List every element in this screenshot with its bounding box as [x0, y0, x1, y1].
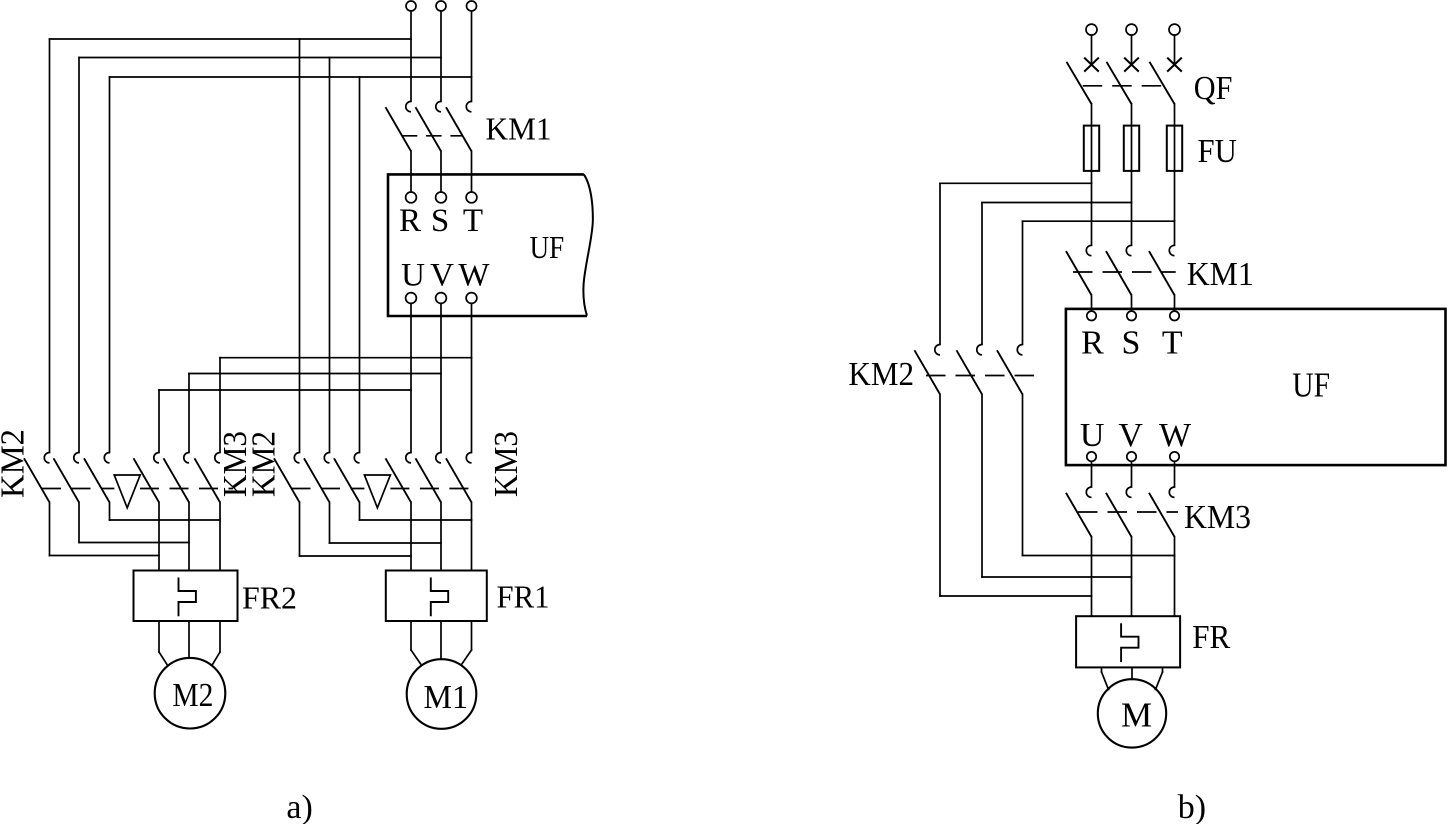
- wire: [471, 11, 473, 101]
- wire: [299, 39, 301, 453]
- wire: [471, 303, 473, 452]
- contactor KM2 pole 1 (a): [24, 453, 50, 503]
- svg-text:UF: UF: [1292, 367, 1330, 405]
- mechanical link QF: [1083, 85, 1163, 87]
- wire: [1131, 537, 1133, 616]
- mechanical link KM2/KM3 left (a): [42, 488, 114, 490]
- wire: [471, 151, 473, 192]
- wire: [78, 502, 80, 542]
- wire: [220, 357, 472, 359]
- svg-text:W: W: [458, 258, 490, 294]
- contactor KM3 pole 2 (b): [1106, 487, 1132, 537]
- wire: [1022, 394, 1024, 555]
- breaker QF pole 1 fixed contact: [1084, 58, 1099, 72]
- wire: [940, 595, 1092, 597]
- terminal L2 (a): [436, 1, 446, 11]
- wire: [1091, 461, 1093, 487]
- thermal relay FR1 heater element: [431, 578, 448, 617]
- contactor KM2 pole 5 (a): [304, 453, 330, 503]
- pin V output (a): [436, 293, 447, 304]
- svg-text:KM2: KM2: [848, 356, 914, 393]
- wire: [329, 502, 331, 543]
- wire: [188, 374, 190, 453]
- mechanical link KM2/KM3 left (a): [140, 488, 233, 490]
- wire: [213, 652, 221, 665]
- contactor KM3 pole 6 (a): [446, 453, 472, 503]
- mechanical link KM2/KM3 right (a): [292, 488, 365, 490]
- wire: [158, 502, 160, 570]
- contactor KM3 pole 1 (b): [1066, 487, 1092, 537]
- terminal L3 (b): [1169, 24, 1180, 35]
- contactor KM1 pole 3 (b): [1149, 245, 1175, 295]
- svg-text:R: R: [399, 203, 421, 239]
- contactor KM3 pole 3 (b): [1149, 487, 1175, 537]
- svg-text:M2: M2: [172, 677, 213, 714]
- pin U output (b): [1087, 452, 1096, 461]
- svg-text:KM2: KM2: [0, 429, 32, 498]
- pin S (a): [436, 192, 447, 203]
- wire: [440, 303, 442, 452]
- terminal L2 (b): [1126, 24, 1137, 35]
- contactor KM1 pole 1 (a): [386, 101, 412, 151]
- svg-text:FU: FU: [1198, 133, 1237, 170]
- svg-text:QF: QF: [1194, 70, 1233, 107]
- pin U output (a): [406, 293, 417, 304]
- wire: [1174, 35, 1176, 65]
- wire: [109, 77, 111, 453]
- svg-text:W: W: [1159, 417, 1192, 454]
- svg-text:FR1: FR1: [497, 579, 550, 615]
- wire: [440, 502, 442, 570]
- svg-text:S: S: [431, 203, 449, 239]
- mechanical link KM2 (b): [926, 375, 1034, 377]
- pin W output (b): [1170, 452, 1179, 461]
- motor M1: [407, 659, 477, 729]
- svg-text:a): a): [286, 789, 312, 824]
- svg-text:M: M: [1121, 696, 1152, 735]
- wire: [1023, 555, 1175, 557]
- wire: [110, 76, 472, 78]
- wire: [158, 390, 160, 453]
- wire: [219, 502, 221, 570]
- wire: [1091, 537, 1093, 616]
- frequency converter UF (a) torn edge: [583, 174, 592, 315]
- wire: [1131, 104, 1133, 245]
- contactor KM3 pole 2 (a): [164, 453, 190, 503]
- contactor KM2 pole 4 (a): [274, 453, 300, 503]
- breaker QF pole 1 blade: [1067, 62, 1092, 104]
- wire: [50, 38, 412, 40]
- svg-text:S: S: [1122, 325, 1141, 362]
- svg-text:V: V: [430, 258, 454, 294]
- wire: [440, 11, 442, 101]
- wire: [939, 183, 941, 344]
- svg-text:FR: FR: [1192, 619, 1230, 656]
- wire: [440, 621, 442, 659]
- wire: [981, 203, 983, 345]
- wire: [1131, 295, 1133, 311]
- frequency converter UF (b) box: [1066, 309, 1446, 465]
- contactor KM3 pole 5 (a): [416, 453, 442, 503]
- wire: [1091, 295, 1093, 311]
- breaker QF pole 3 fixed contact: [1167, 58, 1182, 72]
- wire: [1174, 295, 1176, 311]
- wire: [1022, 221, 1024, 344]
- wire: [159, 389, 411, 391]
- pin R (b): [1087, 311, 1096, 320]
- wire: [158, 621, 160, 652]
- svg-text:U: U: [401, 258, 425, 294]
- wire: [219, 621, 221, 652]
- wire: [410, 11, 412, 101]
- wire: [981, 394, 983, 577]
- fuse FU 1: [1084, 126, 1099, 171]
- wire: [1174, 537, 1176, 616]
- svg-text:U: U: [1080, 417, 1105, 454]
- thermal relay FR box: [1076, 616, 1180, 667]
- pin W output (a): [466, 293, 477, 304]
- svg-text:R: R: [1081, 325, 1104, 362]
- svg-text:b): b): [1178, 789, 1206, 824]
- thermal relay FR2 box: [134, 571, 238, 622]
- svg-text:KM3: KM3: [1184, 499, 1251, 536]
- wire: [330, 542, 442, 544]
- terminal L1 (a): [406, 1, 416, 11]
- contactor KM2 pole 2 (a): [54, 453, 80, 503]
- motor M2: [155, 658, 226, 729]
- wire: [1023, 220, 1175, 222]
- wire: [462, 650, 472, 664]
- wire: [982, 576, 1132, 578]
- wire: [411, 650, 421, 664]
- contactor KM2 pole 3 (b): [997, 345, 1023, 395]
- wire: [410, 151, 412, 192]
- wire: [471, 621, 473, 650]
- wire: [1174, 461, 1176, 487]
- thermal relay FR1 box: [386, 571, 487, 622]
- breaker QF pole 2 fixed contact: [1124, 58, 1139, 72]
- terminal L3 (a): [467, 1, 477, 11]
- svg-text:T: T: [463, 203, 483, 239]
- svg-text:KM1: KM1: [1187, 256, 1254, 293]
- wire: [78, 58, 80, 453]
- contactor KM3 pole 4 (a): [386, 453, 412, 503]
- svg-text:FR2: FR2: [242, 580, 297, 616]
- mechanical link KM1 (b): [1073, 271, 1176, 273]
- contactor KM2 pole 2 (b): [957, 345, 983, 395]
- contactor KM2 pole 3 (a): [84, 453, 110, 503]
- svg-text:KM2: KM2: [246, 431, 283, 497]
- wire: [1131, 667, 1133, 679]
- wire: [109, 502, 111, 520]
- wire: [1156, 672, 1163, 690]
- wire: [440, 151, 442, 192]
- pin T (a): [466, 192, 477, 203]
- wire: [329, 58, 331, 453]
- contactor KM3 pole 1 (a): [134, 453, 160, 503]
- breaker QF pole 2 blade: [1107, 62, 1132, 104]
- delta symbol left (a): [114, 475, 140, 508]
- contactor KM1 pole 2 (a): [416, 101, 442, 151]
- wire: [1102, 672, 1109, 690]
- frequency converter UF (a) box: [388, 174, 587, 316]
- contactor KM3 pole 3 (a): [195, 453, 221, 503]
- fuse FU 2: [1124, 126, 1139, 171]
- wire: [49, 39, 51, 453]
- pin R (a): [406, 192, 417, 203]
- wire: [79, 542, 189, 544]
- thermal relay FR2 heater element: [179, 578, 196, 617]
- wire: [1162, 667, 1164, 672]
- wire: [360, 519, 472, 521]
- wire: [410, 621, 412, 650]
- mechanical link KM2/KM3 right (a): [390, 488, 472, 490]
- contactor KM1 pole 2 (b): [1106, 245, 1132, 295]
- svg-text:KM1: KM1: [486, 111, 552, 147]
- fuse FU 3: [1167, 126, 1182, 171]
- mechanical link KM1 (a): [402, 135, 462, 137]
- svg-text:UF: UF: [530, 229, 565, 265]
- wire: [79, 57, 441, 59]
- wire: [982, 202, 1132, 204]
- contactor KM2 pole 1 (b): [915, 345, 941, 395]
- wire: [188, 502, 190, 570]
- contactor KM1 pole 1 (b): [1066, 245, 1092, 295]
- svg-text:T: T: [1162, 325, 1183, 362]
- wire: [940, 182, 1092, 184]
- pin V output (b): [1127, 452, 1136, 461]
- wire: [1091, 104, 1093, 245]
- wire: [299, 502, 301, 556]
- wire: [1091, 35, 1093, 65]
- wire: [410, 303, 412, 452]
- pin T (b): [1170, 311, 1179, 320]
- mechanical link KM3 (b): [1078, 511, 1178, 513]
- wire: [300, 555, 412, 557]
- terminal L1 (b): [1086, 24, 1097, 35]
- wire: [1131, 461, 1133, 487]
- wire: [359, 502, 361, 520]
- wire: [189, 373, 441, 375]
- wire: [50, 555, 160, 557]
- contactor KM2 pole 6 (a): [334, 453, 360, 503]
- wire: [410, 502, 412, 570]
- wire: [471, 502, 473, 570]
- wire: [219, 358, 221, 453]
- pin S (b): [1127, 311, 1136, 320]
- svg-text:V: V: [1118, 417, 1143, 454]
- wire: [188, 621, 190, 658]
- wire: [1174, 104, 1176, 245]
- svg-text:KM3: KM3: [488, 431, 525, 497]
- wire: [359, 77, 361, 453]
- breaker QF pole 3 blade: [1150, 62, 1175, 104]
- thermal relay FR heater element: [1121, 623, 1138, 662]
- wire: [110, 519, 221, 521]
- wire: [939, 394, 941, 596]
- wire: [1131, 35, 1133, 65]
- motor M: [1098, 679, 1166, 747]
- wire: [49, 502, 51, 555]
- wire: [159, 652, 167, 665]
- svg-text:M1: M1: [424, 679, 469, 716]
- contactor KM1 pole 3 (a): [446, 101, 472, 151]
- delta symbol right (a): [364, 475, 390, 508]
- wire: [1101, 667, 1103, 672]
